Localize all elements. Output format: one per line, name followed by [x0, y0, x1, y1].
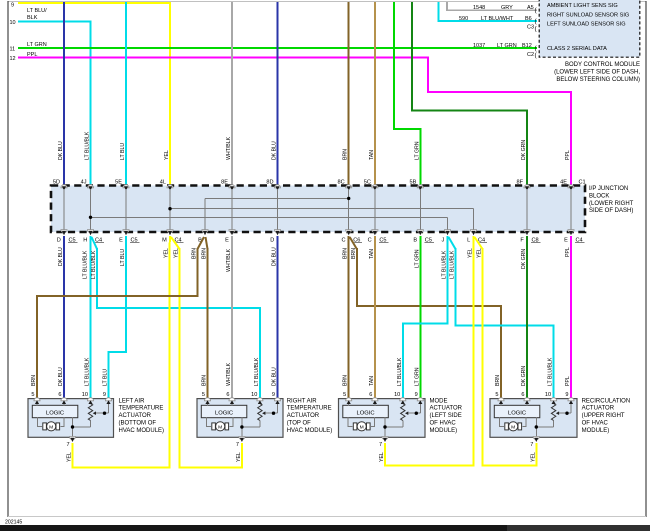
svg-text:LT BLU: LT BLU [120, 143, 126, 160]
right air temperature actuator motor M [216, 422, 225, 431]
svg-text:DK GRN: DK GRN [521, 366, 527, 386]
recirculation actuator pin 10 [551, 398, 557, 401]
svg-text:M: M [511, 424, 515, 430]
svg-text:YEL: YEL [67, 452, 73, 462]
mode actuator potentiometer wiper from pin 9 [419, 401, 421, 413]
junction block internal wire x277.5 [277, 189, 279, 231]
wire YEL circuit 9 vertical drop to pin 4L [169, 2, 171, 186]
mode actuator pin 5 [346, 398, 352, 401]
svg-text:B6: B6 [525, 16, 532, 22]
I/P junction block body [51, 186, 585, 233]
wire LT BLU/WHT to BCM B6 [439, 2, 538, 21]
svg-text:TEMPERATURE: TEMPERATURE [287, 406, 332, 412]
svg-text:DK BLU: DK BLU [272, 247, 278, 266]
svg-text:YEL: YEL [174, 248, 180, 258]
svg-text:AMBIENT LIGHT SENS SIG: AMBIENT LIGHT SENS SIG [547, 3, 618, 9]
junction block bottom pin H C4 [87, 230, 93, 233]
junction block top pin 5B [417, 185, 423, 188]
wire LT BLU/BLK circuit 10 horizontal [18, 21, 91, 23]
recirculation actuator logic module [494, 405, 540, 417]
svg-text:E: E [119, 238, 123, 244]
bottom task bar [0, 525, 650, 531]
wire PPL jog right [427, 91, 571, 93]
svg-text:LT BLU/BLK: LT BLU/BLK [85, 357, 91, 386]
junction block internal wire x571 [570, 189, 572, 231]
svg-text:9: 9 [415, 392, 418, 398]
svg-text:RECIRCULATION: RECIRCULATION [582, 398, 631, 404]
wire LT BLU/BLK pin J right branch to recirculation actuator pin 10 [449, 237, 456, 249]
svg-text:7: 7 [530, 442, 533, 448]
svg-text:6: 6 [521, 392, 524, 398]
mode actuator pin 7 [382, 437, 388, 440]
svg-text:LT BLU/: LT BLU/ [27, 8, 47, 14]
svg-text:M: M [360, 424, 364, 430]
svg-text:LT BLU/BLK: LT BLU/BLK [83, 250, 89, 279]
svg-text:10: 10 [394, 392, 400, 398]
mode actuator box [339, 399, 426, 438]
junction block top pin 8F [524, 185, 530, 188]
left air temperature actuator motor M [47, 422, 56, 431]
svg-text:LT GRN: LT GRN [497, 43, 517, 49]
recirculation actuator pin 6 [524, 398, 530, 401]
left air temperature actuator potentiometer wiper from pin 9 [108, 401, 110, 413]
svg-text:C3: C3 [527, 25, 534, 31]
svg-text:WHT/BLK: WHT/BLK [226, 362, 232, 386]
wire TAN to pin 5C [374, 2, 376, 186]
wire YEL pin M left branch [169, 236, 172, 468]
svg-text:(BOTTOM OF: (BOTTOM OF [119, 421, 157, 427]
svg-text:BODY CONTROL MODULE: BODY CONTROL MODULE [565, 62, 640, 68]
svg-text:BLOCK: BLOCK [589, 193, 609, 199]
svg-text:GRY: GRY [501, 5, 513, 11]
wire DK BLU to pin 5D [63, 2, 65, 186]
svg-text:LOGIC: LOGIC [46, 410, 64, 416]
svg-text:LT GRN: LT GRN [414, 141, 420, 160]
svg-text:590: 590 [459, 16, 468, 22]
mode actuator pin 7 internal lead [384, 418, 386, 438]
junction block internal wire x126 [125, 189, 127, 231]
svg-text:ACTUATOR: ACTUATOR [430, 406, 463, 412]
left air temperature actuator box [28, 399, 114, 438]
wire YEL pin M right branch [171, 237, 180, 249]
svg-text:LT BLU: LT BLU [120, 249, 126, 266]
svg-text:BRN: BRN [343, 149, 349, 160]
svg-text:M: M [162, 238, 167, 244]
svg-text:H: H [83, 238, 87, 244]
svg-text:9: 9 [272, 392, 275, 398]
wire LT BLU/BLK pin H right branch to right actuator pin 10 [92, 237, 98, 249]
junction block top pin 8D [274, 185, 280, 188]
svg-text:LT GRN: LT GRN [414, 249, 420, 268]
mode actuator pin 6 internal lead [374, 401, 376, 405]
junction block top pin 4J [87, 185, 93, 188]
svg-text:8C: 8C [338, 180, 345, 186]
svg-text:10: 10 [251, 392, 257, 398]
right air temperature actuator pin 7 internal lead [241, 418, 243, 438]
right air temperature actuator pin 9 [274, 398, 280, 401]
svg-text:12: 12 [10, 56, 16, 62]
svg-text:LT GRN: LT GRN [414, 367, 420, 386]
svg-text:D: D [270, 238, 274, 244]
svg-text:5: 5 [343, 392, 346, 398]
mode actuator pin 6 [372, 398, 378, 401]
svg-text:RIGHT AIR: RIGHT AIR [287, 398, 318, 404]
svg-text:LOGIC: LOGIC [215, 410, 233, 416]
svg-text:HVAC MODULE): HVAC MODULE) [119, 428, 165, 434]
svg-text:LT BLU/BLK: LT BLU/BLK [450, 250, 456, 279]
svg-text:BELOW STEERING COLUMN): BELOW STEERING COLUMN) [556, 77, 640, 83]
svg-text:DK BLU: DK BLU [58, 367, 64, 386]
svg-text:F: F [520, 238, 524, 244]
wire BRN pin C right branch to recirculation actuator pin 5 [350, 237, 357, 249]
junction block bottom pin C C6 [346, 230, 352, 233]
svg-text:5E: 5E [115, 180, 122, 186]
svg-text:BRN: BRN [202, 248, 208, 259]
junction block bottom pin E C5 [123, 230, 129, 233]
svg-text:YEL: YEL [468, 248, 474, 258]
recirculation actuator potentiometer wiper from pin 9 [570, 401, 572, 413]
svg-text:D: D [57, 238, 61, 244]
wire YEL recirculation actuator pin 7 return [482, 443, 537, 466]
left air temperature actuator pin 5 [34, 398, 40, 401]
wire LT BLU/BLK circuit 10 vertical drop to pin 4J [90, 21, 92, 187]
svg-text:LT BLU/BLK: LT BLU/BLK [254, 357, 260, 386]
wire LT BLU to pin 5E [125, 2, 127, 186]
recirculation actuator pin 5 [498, 398, 504, 401]
right air temperature actuator pin 6 [229, 398, 235, 401]
junction block internal wire x527 [526, 189, 528, 231]
svg-text:LEFT AIR: LEFT AIR [119, 398, 146, 404]
right air temperature actuator pin 6 internal lead [231, 401, 233, 405]
right air temperature actuator box [197, 399, 283, 438]
svg-text:LT BLU/WHT: LT BLU/WHT [481, 16, 514, 22]
svg-text:LT BLU/BLK: LT BLU/BLK [548, 357, 554, 386]
svg-text:B: B [413, 238, 417, 244]
junction block bottom pin B [202, 230, 208, 233]
junction block bottom pin E [229, 230, 235, 233]
junction block top pin 8E [229, 185, 235, 188]
svg-text:4L: 4L [160, 180, 166, 186]
svg-text:LT BLU/BLK: LT BLU/BLK [397, 357, 403, 386]
mode actuator pin 5 internal lead [348, 401, 350, 405]
svg-text:10: 10 [10, 20, 16, 26]
wire LT BLU pin E to left actuator pin 9 [109, 236, 127, 399]
left air temperature actuator feedback potentiometer [90, 401, 92, 404]
left air temperature actuator pin 5 internal lead [36, 401, 38, 405]
svg-text:(LOWER RIGHT: (LOWER RIGHT [589, 201, 634, 207]
svg-text:BRN: BRN [343, 375, 349, 386]
left air temperature actuator motor leads [38, 418, 43, 427]
svg-text:LT BLU/BLK: LT BLU/BLK [85, 131, 91, 160]
svg-text:ACTUATOR: ACTUATOR [582, 406, 615, 412]
svg-text:E: E [564, 238, 568, 244]
svg-text:C: C [341, 238, 345, 244]
wire DK BLU pin D to left actuator pin 6 [63, 236, 65, 399]
recirculation actuator pin 7 internal lead [535, 418, 537, 438]
svg-text:M: M [218, 424, 222, 430]
svg-text:DK BLU: DK BLU [272, 367, 278, 386]
wire YEL pin L left branch [473, 236, 475, 466]
svg-text:C: C [368, 238, 372, 244]
svg-text:YEL: YEL [164, 248, 170, 258]
svg-text:YEL: YEL [530, 452, 536, 462]
svg-text:LOGIC: LOGIC [508, 410, 526, 416]
svg-text:L: L [467, 238, 470, 244]
left border line [7, 1, 9, 517]
wire WHT/BLK to pin 8E [231, 2, 233, 186]
svg-text:LT BLU/BLK: LT BLU/BLK [442, 250, 448, 279]
mode actuator pin 9 [417, 398, 423, 401]
junction block internal wire x232 [231, 189, 233, 231]
wire YEL pin L right branch [475, 237, 483, 249]
junction block bottom pin C C5 [372, 230, 378, 233]
svg-text:5: 5 [31, 392, 34, 398]
svg-text:202145: 202145 [5, 520, 22, 526]
junction block top pin 5E [123, 185, 129, 188]
svg-text:8D: 8D [266, 180, 273, 186]
wire LT BLU/BLK pin J left branch to mode actuator pin 10 [403, 236, 448, 399]
junction block top pin 5C [372, 185, 378, 188]
recirculation actuator box [490, 399, 577, 438]
svg-text:LT GRN: LT GRN [27, 42, 47, 48]
svg-text:HVAC MODULE): HVAC MODULE) [287, 428, 333, 434]
wire DK GRN to pin 8F [412, 2, 527, 186]
mode actuator feedback potentiometer [402, 401, 404, 404]
junction block internal stub pin B [204, 198, 206, 230]
right air temperature actuator pin 10 [257, 398, 263, 401]
svg-text:5D: 5D [53, 180, 60, 186]
junction block bottom pin E C4 [568, 230, 574, 233]
junction block bus 3 [91, 216, 448, 218]
junction block internal wire x348.7 [348, 189, 350, 231]
svg-text:C1: C1 [579, 180, 586, 186]
svg-text:YEL: YEL [164, 150, 170, 160]
svg-text:TAN: TAN [369, 249, 375, 259]
mode actuator motor leads [348, 418, 353, 427]
right air temperature actuator pin 5 internal lead [207, 401, 209, 405]
svg-text:PPL: PPL [565, 376, 571, 386]
svg-text:DK BLU: DK BLU [58, 247, 64, 266]
svg-text:DK GRN: DK GRN [521, 249, 527, 269]
junction block top pin 4E [568, 185, 574, 188]
svg-text:ACTUATOR: ACTUATOR [119, 413, 152, 419]
mode actuator pin 10 [400, 398, 406, 401]
svg-text:YEL: YEL [477, 248, 483, 258]
svg-text:6: 6 [369, 392, 372, 398]
svg-text:OF HVAC: OF HVAC [430, 421, 457, 427]
wire YEL circuit 9 horizontal [18, 2, 170, 4]
svg-text:WHT/BLK: WHT/BLK [226, 248, 232, 272]
svg-text:LT BLU/BLK: LT BLU/BLK [91, 250, 97, 279]
recirculation actuator feedback potentiometer [553, 401, 555, 404]
svg-text:(UPPER RIGHT: (UPPER RIGHT [582, 413, 625, 419]
svg-text:TEMPERATURE: TEMPERATURE [119, 406, 164, 412]
wire BRN pin B right branch to right actuator pin 5 [206, 237, 208, 249]
wire PPL circuit 12 horizontal [18, 57, 428, 59]
svg-text:SIDE OF DASH): SIDE OF DASH) [589, 208, 633, 214]
wire DK BLU to pin 8D [277, 2, 279, 186]
svg-text:YEL: YEL [236, 452, 242, 462]
recirculation actuator motor M [509, 422, 518, 431]
svg-text:LT BLU: LT BLU [103, 369, 109, 386]
left air temperature actuator pin 7 [69, 437, 75, 440]
junction block bottom pin L C4 [470, 230, 476, 233]
svg-text:5B: 5B [409, 180, 416, 186]
svg-text:MODULE): MODULE) [430, 428, 458, 434]
right air temperature actuator feedback potentiometer [259, 401, 261, 404]
junction block bus 1 [205, 197, 349, 199]
svg-text:BRN: BRN [351, 248, 357, 259]
svg-text:10: 10 [82, 392, 88, 398]
wire YEL mode actuator pin 7 return [385, 443, 475, 466]
top border line [8, 1, 646, 3]
right air temperature actuator motor leads [207, 418, 212, 427]
svg-text:TAN: TAN [369, 376, 375, 386]
svg-text:1037: 1037 [473, 43, 485, 49]
svg-text:CLASS 2 SERIAL DATA: CLASS 2 SERIAL DATA [547, 46, 607, 52]
junction block top pin 5D [61, 185, 67, 188]
recirculation actuator pin 6 internal lead [526, 401, 528, 405]
mode actuator logic module [343, 405, 389, 417]
wire GRY to BCM A5 [447, 2, 537, 10]
svg-text:BLK: BLK [27, 15, 38, 21]
svg-text:PPL: PPL [27, 52, 37, 58]
wire DK BLU pin D to right actuator pin 9 [277, 236, 279, 399]
junction block bus 2 [170, 208, 474, 210]
svg-text:4J: 4J [81, 180, 87, 186]
svg-text:E: E [225, 238, 229, 244]
junction block internal wire x64 [63, 189, 65, 231]
wire LT GRN circuit 11 horizontal to BCM B12 [18, 47, 537, 49]
svg-text:(LOWER LEFT SIDE OF DASH,: (LOWER LEFT SIDE OF DASH, [554, 69, 640, 75]
junction block internal wire x420.3 [419, 189, 421, 231]
junction block bottom pin D C5 [61, 230, 67, 233]
svg-text:(LEFT SIDE: (LEFT SIDE [430, 413, 462, 419]
wire BRN pin B left branch to left actuator pin 5 [198, 237, 205, 249]
svg-text:5: 5 [495, 392, 498, 398]
wire DK GRN pin F to recirculation actuator pin 6 [526, 236, 528, 399]
svg-text:7: 7 [379, 442, 382, 448]
svg-text:5: 5 [202, 392, 205, 398]
svg-text:5C: 5C [364, 180, 371, 186]
wire LT GRN to pin 5B [394, 2, 420, 186]
svg-text:8F: 8F [516, 180, 523, 186]
wire PPL jog down [427, 57, 429, 92]
junction block internal wire x170 [169, 189, 171, 231]
wire PPL pin E to recirculation actuator pin 9 [570, 236, 572, 399]
svg-text:A5: A5 [527, 5, 534, 11]
svg-text:DK BLU: DK BLU [58, 141, 64, 160]
wire YEL left actuator pin 7 return [73, 443, 171, 468]
svg-text:11: 11 [10, 47, 16, 53]
svg-text:C2: C2 [527, 52, 534, 58]
svg-text:MODE: MODE [430, 398, 448, 404]
svg-text:I/P JUNCTION: I/P JUNCTION [589, 186, 628, 192]
recirculation actuator pin 9 [568, 398, 574, 401]
junction block top pin 8C [346, 185, 352, 188]
svg-text:6: 6 [58, 392, 61, 398]
wire LT BLU/BLK pin H left branch to left actuator pin 10 [90, 236, 92, 399]
svg-text:8E: 8E [221, 180, 228, 186]
svg-text:BRN: BRN [343, 248, 349, 259]
wire WHT/BLK pin E to right actuator pin 6 [231, 236, 233, 399]
right air temperature actuator pin 5 [204, 398, 210, 401]
svg-text:YEL: YEL [379, 452, 385, 462]
svg-text:4E: 4E [560, 180, 567, 186]
junction block bottom pin B C5 [417, 230, 423, 233]
svg-text:DK GRN: DK GRN [521, 140, 527, 160]
svg-text:BRN: BRN [31, 375, 37, 386]
svg-text:BRN: BRN [192, 248, 198, 259]
junction block bottom pin M C4 [167, 230, 173, 233]
left air temperature actuator pin 6 internal lead [63, 401, 65, 405]
junction block top pin 4L [167, 185, 173, 188]
svg-text:MODULE): MODULE) [582, 428, 610, 434]
svg-text:9: 9 [565, 392, 568, 398]
left air temperature actuator logic module [32, 405, 78, 417]
recirculation actuator pin 7 [533, 437, 539, 440]
recirculation actuator pin 5 internal lead [500, 401, 502, 405]
recirculation actuator motor leads [500, 418, 505, 427]
svg-text:7: 7 [236, 442, 239, 448]
wire PPL drop to pin 4E [570, 91, 572, 186]
right air temperature actuator pin 7 [239, 437, 245, 440]
wire BRN pin C left branch to mode actuator pin 5 [348, 236, 350, 399]
wire YEL right actuator pin 7 return [179, 443, 242, 468]
wire BRN to pin 8C [348, 2, 350, 186]
svg-text:(TOP OF: (TOP OF [287, 421, 311, 427]
junction block internal wire x374.9 [374, 189, 376, 231]
svg-text:RIGHT SUNLOAD SENSOR SIG: RIGHT SUNLOAD SENSOR SIG [547, 12, 629, 18]
left air temperature actuator pin 9 [105, 398, 111, 401]
right air temperature actuator potentiometer wiper from pin 9 [277, 401, 279, 413]
junction block bottom pin J [444, 230, 450, 233]
wire TAN pin C to mode actuator pin 6 [374, 236, 376, 399]
svg-text:BRN: BRN [495, 375, 501, 386]
mode actuator motor M [357, 422, 366, 431]
svg-text:DK BLU: DK BLU [272, 141, 278, 160]
body control module box [539, 0, 640, 57]
wire LT GRN pin B to mode actuator pin 9 [419, 236, 421, 399]
svg-text:1548: 1548 [473, 5, 485, 11]
svg-text:LOGIC: LOGIC [356, 410, 374, 416]
svg-text:J: J [442, 238, 445, 244]
junction block internal wire x90.5 [90, 189, 92, 231]
svg-text:7: 7 [67, 442, 70, 448]
right border line [645, 1, 647, 517]
left air temperature actuator pin 10 [87, 398, 93, 401]
svg-text:TAN: TAN [369, 150, 375, 160]
svg-text:9: 9 [11, 3, 14, 9]
svg-text:WHT/BLK: WHT/BLK [226, 136, 232, 160]
left air temperature actuator pin 7 internal lead [72, 418, 74, 438]
svg-text:9: 9 [103, 392, 106, 398]
svg-text:10: 10 [545, 392, 551, 398]
svg-text:OF HVAC: OF HVAC [582, 421, 609, 427]
svg-text:B12: B12 [522, 43, 532, 49]
svg-text:LEFT SUNLOAD SENSOR SIG: LEFT SUNLOAD SENSOR SIG [547, 22, 626, 28]
left air temperature actuator pin 6 [61, 398, 67, 401]
svg-text:6: 6 [226, 392, 229, 398]
svg-text:PPL: PPL [565, 247, 571, 257]
svg-text:ACTUATOR: ACTUATOR [287, 413, 320, 419]
bottom inner border line [8, 516, 646, 518]
junction block bottom pin D [274, 230, 280, 233]
svg-text:PPL: PPL [565, 150, 571, 160]
right air temperature actuator logic module [201, 405, 247, 417]
junction block bottom pin F C8 [524, 230, 530, 233]
svg-text:BRN: BRN [202, 375, 208, 386]
